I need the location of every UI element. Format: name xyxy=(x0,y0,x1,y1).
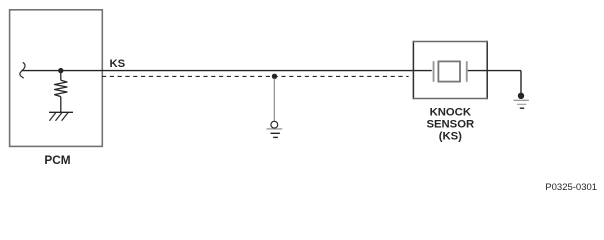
piezo element crystal square xyxy=(438,61,460,81)
wire continuation squiggle (PCM internal) xyxy=(20,63,25,78)
PCM box xyxy=(10,10,103,147)
PCM label xyxy=(44,153,70,167)
chassis ground (PCM internal) xyxy=(49,112,73,121)
wire (resistor to ground) xyxy=(60,97,62,113)
svg-text:KS: KS xyxy=(110,58,126,70)
shield junction dot xyxy=(272,74,277,79)
svg-text:KNOCK: KNOCK xyxy=(430,106,472,118)
knock sensor box U1 xyxy=(413,41,488,99)
wire (dot to resistor) xyxy=(60,71,62,81)
svg-text:PCM: PCM xyxy=(44,153,70,167)
node junction dot (PCM internal) xyxy=(58,68,63,73)
svg-text:SENSOR: SENSOR xyxy=(426,118,474,130)
svg-text:(KS): (KS) xyxy=(439,130,462,142)
sensor ground terminal dot xyxy=(518,93,524,99)
wire (sensor to ground, horizontal) xyxy=(468,70,521,72)
resistor (PCM internal bias resistor) xyxy=(55,80,68,96)
wire KS (solid, PCM to knock sensor) xyxy=(22,70,432,72)
earth ground with connector ring (shield ground) xyxy=(266,121,282,137)
wire (shield drop to ground) xyxy=(273,79,275,122)
KNOCK SENSOR (KS) label xyxy=(426,106,474,142)
earth ground (sensor case ground) xyxy=(514,100,529,108)
svg-text:P0325-0301: P0325-0301 xyxy=(545,182,597,193)
piezo element left plate xyxy=(433,61,435,82)
shield wire (dashed) xyxy=(102,75,409,77)
figure number P0325-0301 xyxy=(545,182,597,193)
piezo element right plate xyxy=(466,61,468,82)
net label KS xyxy=(110,58,126,70)
wire (sensor ground drop) xyxy=(520,71,522,94)
